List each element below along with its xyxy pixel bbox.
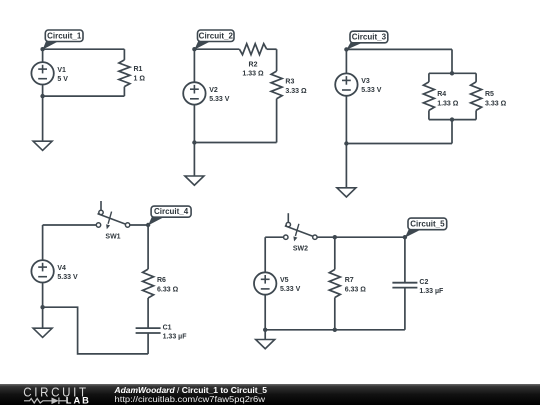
svg-text:R6: R6	[157, 277, 166, 284]
svg-text:C2: C2	[419, 279, 428, 286]
svg-text:http://circuitlab.com/cw7faw5p: http://circuitlab.com/cw7faw5pq2r6w	[115, 395, 266, 404]
svg-text:1.33 Ω: 1.33 Ω	[242, 71, 264, 78]
svg-text:V3: V3	[361, 78, 370, 85]
svg-text:R1: R1	[134, 66, 143, 73]
svg-text:3.33 Ω: 3.33 Ω	[285, 88, 307, 95]
svg-text:Circuit_4: Circuit_4	[154, 207, 189, 216]
svg-text:V5: V5	[280, 277, 289, 284]
svg-text:1.33 µF: 1.33 µF	[419, 288, 444, 295]
svg-text:R3: R3	[285, 78, 294, 85]
svg-text:LAB: LAB	[66, 395, 91, 405]
svg-text:C1: C1	[163, 325, 172, 332]
svg-text:Circuit_3: Circuit_3	[352, 33, 387, 42]
svg-text:1.33 µF: 1.33 µF	[163, 334, 188, 341]
svg-text:1.33 Ω: 1.33 Ω	[437, 100, 459, 107]
svg-text:5.33 V: 5.33 V	[361, 87, 382, 94]
svg-text:Circuit_5: Circuit_5	[410, 220, 445, 229]
svg-text:V2: V2	[209, 87, 218, 94]
svg-text:5 V: 5 V	[57, 76, 68, 83]
svg-text:Circuit_1: Circuit_1	[47, 31, 82, 40]
svg-text:Circuit_2: Circuit_2	[199, 31, 234, 40]
svg-text:6.33 Ω: 6.33 Ω	[345, 287, 367, 294]
svg-text:AdamWoodard / Circuit_1 to Cir: AdamWoodard / Circuit_1 to Circuit_5	[113, 386, 267, 395]
svg-text:5.33 V: 5.33 V	[209, 96, 230, 103]
svg-text:5.33 V: 5.33 V	[57, 274, 78, 281]
svg-text:V4: V4	[57, 265, 66, 272]
svg-text:SW2: SW2	[293, 246, 308, 253]
svg-text:R5: R5	[485, 91, 494, 98]
svg-text:SW1: SW1	[105, 234, 120, 241]
svg-text:R2: R2	[249, 62, 258, 69]
svg-text:1 Ω: 1 Ω	[134, 76, 146, 83]
svg-text:5.33 V: 5.33 V	[280, 286, 301, 293]
svg-text:6.33 Ω: 6.33 Ω	[157, 287, 179, 294]
svg-text:3.33 Ω: 3.33 Ω	[485, 100, 507, 107]
svg-text:R7: R7	[345, 277, 354, 284]
svg-text:R4: R4	[437, 91, 446, 98]
svg-text:V1: V1	[57, 67, 66, 74]
